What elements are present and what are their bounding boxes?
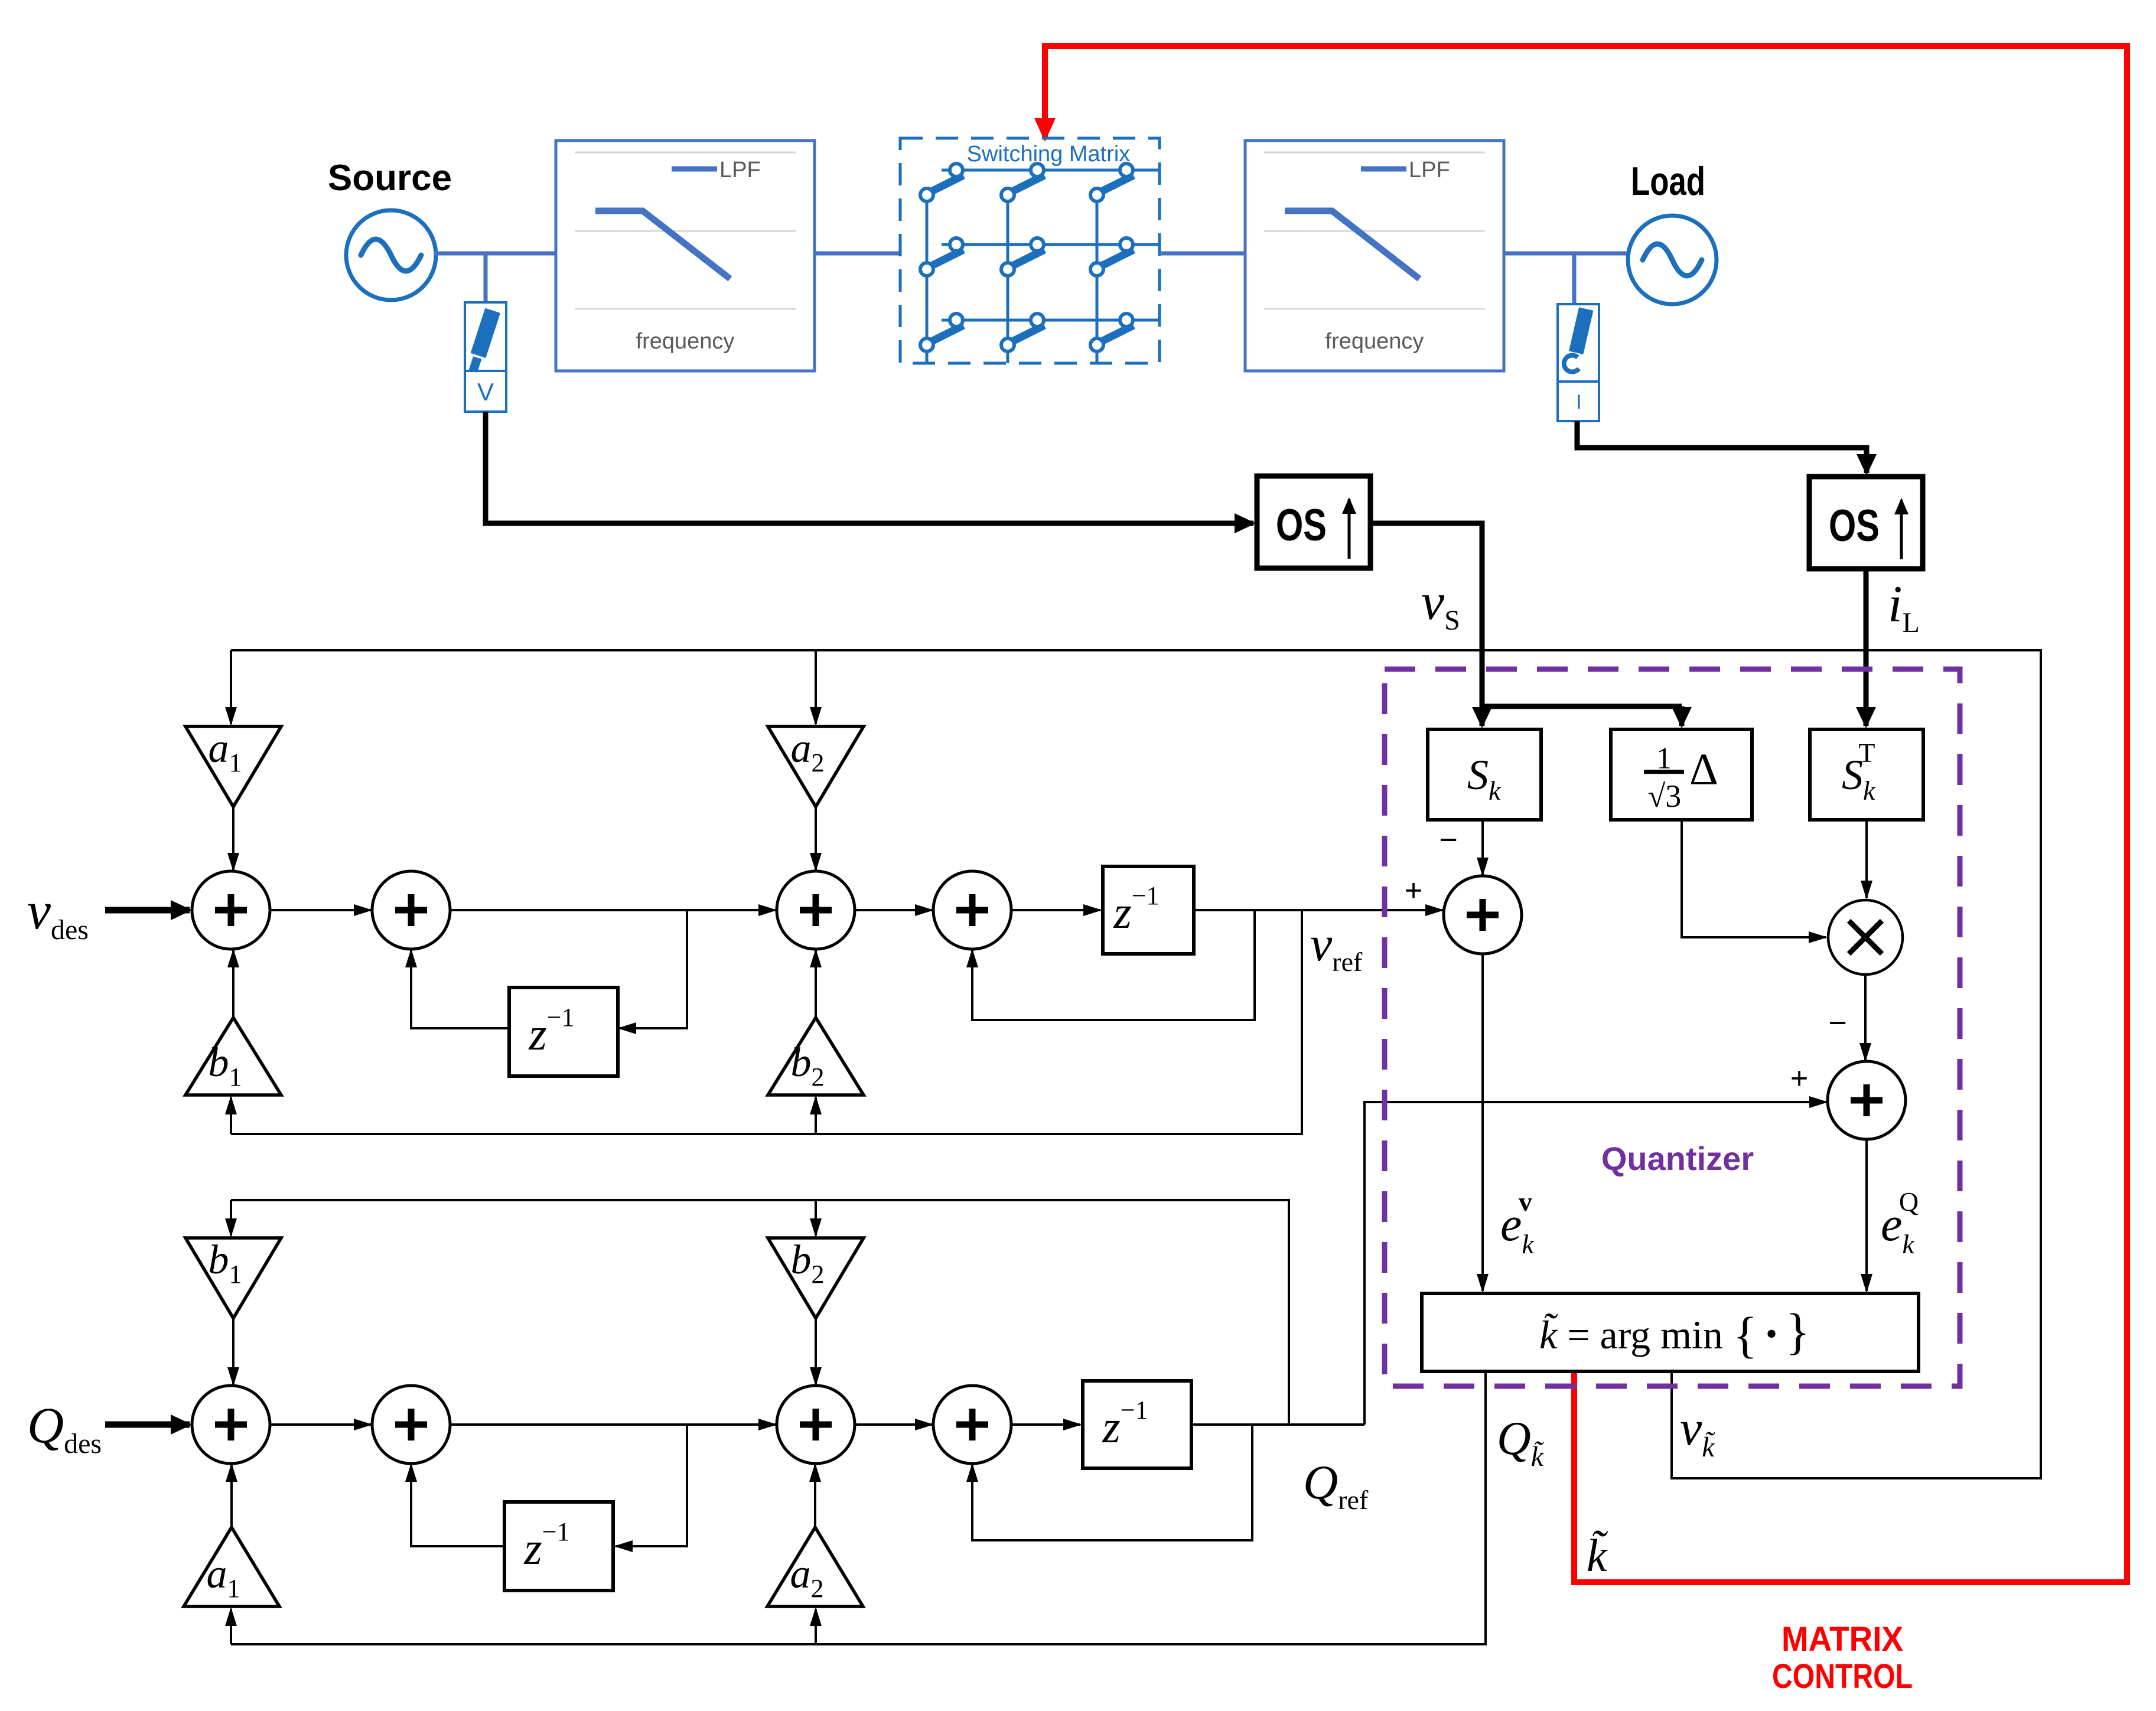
wire source to LPF1 [434,252,556,256]
wire vdes input arrow [105,907,190,914]
wire V sensor to OS1 [486,412,1253,523]
svg-text:k̃: k̃ [1587,1530,1608,1581]
wire arrow into b1 (V row) [230,1097,232,1134]
voltage sensor V [465,302,506,412]
wire b1 to S1 [232,950,235,1018]
wire b1 to S1q [232,1318,235,1384]
svg-text:Qref: Qref [1303,1455,1369,1515]
wire a2 to S3 [815,807,817,870]
wire S1q to S2q [269,1423,371,1426]
wire S4q to z-1 [1010,1423,1080,1426]
wire S3 to S4 [854,909,932,911]
wire I sensor to OS2 [1577,421,1867,473]
wire local loop S4q (Q row) [972,1425,1252,1540]
wire OS1 to quantizer (vS) [1370,523,1482,726]
wire Qref out of z-1 (Q row) [1191,1423,1364,1426]
load generator [1628,216,1717,304]
oversampler OS1 [1257,476,1370,568]
svg-text:Switching Matrix: Switching Matrix [967,142,1131,167]
svg-text:Δ: Δ [1689,745,1718,794]
svg-text:Qk̃: Qk̃ [1497,1413,1545,1472]
svg-text:CONTROL: CONTROL [1772,1657,1913,1696]
block Sk [1428,729,1541,820]
svg-text:Quantizer: Quantizer [1601,1140,1754,1177]
svg-text:I: I [1576,391,1581,413]
delay z-1 (second, Q row) [1083,1381,1191,1468]
summing junction S3 (a2 + b2 V) [777,871,855,949]
wire a1 to S1q [230,1465,233,1527]
delay z-1 (first, V row) [509,988,618,1076]
wire vS branch to delta block [1480,704,1682,709]
summing junction S2q (integrator 1 Q) [372,1386,450,1464]
multiplier X [1828,900,1903,975]
wire tap S2q-S3q into z-1 (Q row) [615,1425,687,1546]
wire b2 to S3 [815,950,817,1018]
svg-text:Qdes: Qdes [27,1397,102,1459]
gain b2 (V row) [768,1018,864,1095]
svg-text:vdes: vdes [27,882,89,946]
wire local loop S4 (V row) [972,910,1255,1020]
source generator [346,210,436,300]
wire Qk feedback: argmin to bottom feedback bus [231,1371,1486,1644]
delay z-1 (second, V row) [1103,866,1194,954]
summing junction S4 (integrator 2 V) [933,871,1011,949]
gain b2 (Q row) [768,1238,864,1318]
wire S2q to S3q [449,1423,776,1426]
wire Qdes input arrow [105,1422,190,1428]
svg-text:LPF: LPF [1409,158,1450,182]
wire arrow into b2 (Q row) [815,1200,817,1236]
wire S2 to S3 [449,909,776,911]
svg-text:OS: OS [1276,500,1327,550]
svg-text:Source: Source [328,158,452,198]
wire LPF2 to load [1504,252,1629,256]
svg-text:ekv: ekv [1500,1187,1535,1259]
svg-text:vS: vS [1421,573,1460,636]
svg-text:frequency: frequency [636,329,735,354]
low pass filter LPF2 [1245,141,1504,371]
wire arrow into b2 (V row) [815,1097,817,1134]
gain b1 (Q row) [185,1238,281,1318]
low pass filter LPF1 [556,141,815,371]
svg-text:+: + [1790,1061,1808,1096]
wire vref to b feedback bus (V row) [231,910,1302,1134]
svg-text:+: + [1405,874,1422,908]
summing junction ev = vref - Sk vS [1444,876,1522,954]
wire OS2 to SkT block (iL) [1864,569,1869,726]
gain a1 (Q row) [184,1527,279,1606]
wire Sk to ev sum (minus) [1481,820,1484,875]
block (1/sqrt3) Delta [1611,729,1752,820]
switching matrix [900,138,1160,363]
wire SkT to multiplier [1865,820,1868,898]
wire LPF1 to switching matrix [815,252,900,256]
wire arrow into gain a2 (Q row) [815,1609,817,1644]
wire Qref up to eQ sum [1364,1102,1826,1425]
wire tap S2-S3 into z-1 (V row) [619,910,687,1028]
wire z-1 out (vref) to quantizer sum [1194,909,1442,911]
svg-text:−: − [1828,1005,1847,1041]
svg-text:vk̃: vk̃ [1680,1401,1715,1463]
wire b2 to S3q [815,1318,817,1384]
wire Qref to b feedback bus (Q row) [231,1200,1289,1425]
gain a2 (V row) [768,726,864,807]
svg-text:ekQ: ekQ [1881,1187,1919,1259]
block Sk transpose [1810,729,1923,820]
wire S4 to z-1 [1010,909,1100,911]
wire S3q to S4q [854,1423,932,1426]
wire ev sum down to argmin [1481,953,1484,1291]
svg-text:frequency: frequency [1325,329,1424,354]
svg-text:LPF: LPF [719,158,761,182]
wire tap down to voltage sensor [484,253,488,302]
wire arrow into b1 (Q row) [230,1200,232,1236]
summing junction S4q (integrator 2 Q) [933,1386,1011,1464]
summing junction S2 (integrator 1 V) [372,871,450,949]
summing junction S3q (b2 + a2 Q) [777,1386,855,1464]
gain a1 (V row) [185,726,281,807]
red wire: matrix control path from argmin to switching matrix [1045,46,2127,1582]
summing junction S1 (vdes + a1 + b1) [192,871,270,949]
argmin block [1422,1293,1919,1371]
wire z-1 out to S2q (Q row) [411,1465,504,1546]
svg-text:OS: OS [1829,501,1880,551]
svg-text:V: V [477,378,494,406]
gain b1 (V row) [185,1018,281,1095]
wire tap down to current sensor [1572,253,1577,304]
svg-text:−: − [1439,822,1458,858]
wire arrow into gain a2 (V row) [815,650,817,724]
svg-text:vref: vref [1310,917,1363,977]
svg-text:MATRIX: MATRIX [1782,1620,1903,1658]
wire Delta block to multiplier [1682,820,1826,937]
wire eQ sum down to argmin [1865,1138,1868,1291]
wire vk feedback: argmin to top feedback bus [231,650,2041,1478]
svg-text:√3: √3 [1648,778,1682,814]
svg-text:Load: Load [1631,159,1705,204]
delay z-1 (first, Q row) [504,1502,613,1591]
summing junction S1q (Qdes + b1 + a1) [192,1386,270,1464]
wire arrow into gain a1 (V row) [230,650,232,724]
summing junction eQ = Qref - (1/sqrt3)Delta SkT iL [1828,1061,1906,1139]
wire a2 to S3q [814,1465,816,1527]
wire multiplier to eQ sum (minus) [1864,975,1867,1060]
wire S1 to S2 [269,909,371,911]
wire z-1 out to S2 (V row) [411,950,509,1028]
wire a1 to S1 [232,807,235,870]
gain a2 (Q row) [767,1527,863,1606]
wire switching matrix to LPF2 [1160,252,1245,256]
svg-text:iL: iL [1888,576,1920,638]
current sensor I [1558,304,1599,421]
wire arrow into gain a1 (Q row) [230,1609,232,1644]
oversampler OS2 [1809,477,1923,569]
quantizer dashed boundary [1385,669,1960,1386]
